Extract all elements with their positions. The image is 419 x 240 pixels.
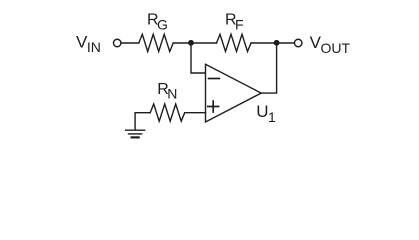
resistor RG [139,34,173,51]
wire R_N to non-inverting input [185,112,206,114]
label RN value [157,81,177,102]
ground [126,129,145,131]
label RF value [225,11,244,32]
resistor RN [150,104,185,121]
wire R_F to output node [251,42,277,44]
node VOUT output terminal [294,39,302,47]
wire R_G to R_F through summing node [173,42,216,44]
label VIN [76,33,101,56]
svg-text:F: F [235,17,244,33]
resistor RF [217,34,252,51]
svg-text:IN: IN [87,39,101,55]
label U1 designator [256,102,276,125]
label VOUT [310,33,351,56]
pin plus sign non-inverting input [208,106,219,108]
wire op-amp output up to output node [261,43,276,93]
svg-text:OUT: OUT [321,40,351,56]
node VIN input terminal [113,39,121,47]
wire input terminal to R_G [121,42,139,44]
node junction at inverting input branch [188,40,194,46]
label RG value [147,11,168,32]
wire output node to VOUT terminal [277,42,295,44]
wire ground to R_N [135,113,150,130]
svg-text:N: N [167,86,177,102]
op-amp U1 [206,64,262,122]
node output junction [274,40,280,46]
svg-text:U: U [256,102,268,121]
wire feedback node down to inverting input [191,43,206,73]
svg-text:G: G [157,17,168,33]
svg-text:1: 1 [268,109,276,125]
pin minus sign inverting input [209,78,220,80]
